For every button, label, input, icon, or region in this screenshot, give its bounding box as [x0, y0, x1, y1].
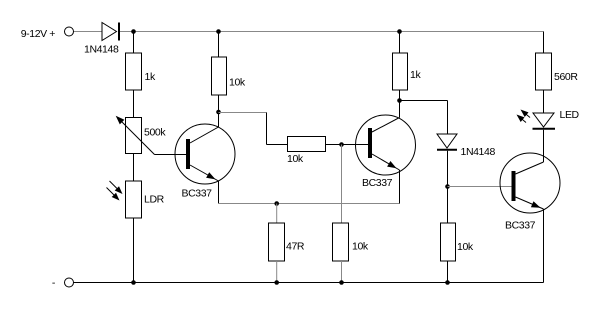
svg-text:9-12V +: 9-12V + [21, 28, 56, 40]
svg-text:BC337: BC337 [362, 177, 393, 189]
svg-text:10k: 10k [352, 241, 369, 253]
svg-text:10k: 10k [287, 153, 304, 165]
svg-text:500k: 500k [144, 127, 166, 139]
svg-text:BC337: BC337 [182, 188, 213, 200]
svg-text:LDR: LDR [144, 194, 165, 206]
svg-text:LED: LED [560, 109, 580, 121]
svg-text:10k: 10k [457, 241, 474, 253]
svg-text:47R: 47R [286, 241, 305, 253]
svg-text:BC337: BC337 [505, 220, 536, 232]
svg-text:560R: 560R [554, 71, 578, 83]
svg-text:1N4148: 1N4148 [461, 146, 496, 158]
svg-text:1k: 1k [145, 71, 156, 83]
svg-text:1N4148: 1N4148 [84, 44, 119, 56]
svg-text:10k: 10k [229, 77, 246, 89]
svg-text:-: - [52, 277, 56, 289]
svg-text:1k: 1k [410, 69, 421, 81]
